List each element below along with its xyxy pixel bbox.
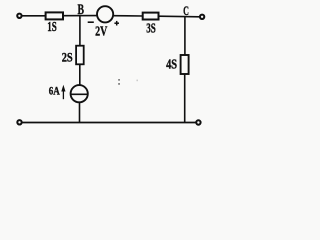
node C junction wire down [184,16,186,55]
terminal node bottom-left [17,120,21,124]
wire top: R1 to voltage source (through node B) [63,15,97,17]
terminal node bottom-right [196,120,200,124]
current source 6A circle [71,85,88,102]
svg-text:B: B [78,2,85,18]
svg-text:C: C [183,3,189,18]
terminal node top-left [17,14,21,18]
svg-text:2V: 2V [95,24,107,39]
wire: current source to bottom rail [79,102,81,122]
6A arrow head [61,85,65,92]
wire top: voltage source to R3 [113,15,143,17]
svg-text:3S: 3S [146,22,156,37]
stray scan mark colon [118,79,120,85]
resistor 1S [46,12,63,19]
svg-text:1S: 1S [47,19,57,34]
stray scan dot [137,80,138,82]
svg-text:6A: 6A [49,86,61,98]
node B junction wire down [79,16,81,46]
bottom rail wire [22,122,196,124]
svg-text:4S: 4S [166,58,177,73]
resistor 2S [76,46,84,65]
wire: 4S to bottom rail [184,74,186,122]
voltage source U=2V circle [97,6,113,22]
plus sign of voltage source [114,22,119,24]
wire: 2S to current source [79,64,81,85]
current source bar [71,93,88,95]
resistor 4S [181,55,189,74]
resistor 3S [143,13,159,20]
svg-text:2S: 2S [62,50,73,64]
wire top: R3 to terminal (through node C) [159,15,200,18]
wire top: terminal to R1 [22,15,46,17]
6A arrow shaft [62,90,64,99]
minus sign of voltage source [88,21,94,23]
terminal node top-right [200,15,204,19]
